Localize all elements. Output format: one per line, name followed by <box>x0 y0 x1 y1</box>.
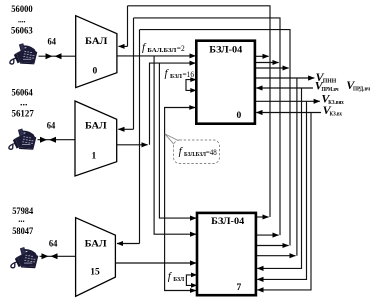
svg-text:...: ... <box>18 215 25 225</box>
label V PRD.vch <box>346 78 370 93</box>
svg-text:...: ... <box>20 99 28 109</box>
BZL7 loop f <box>186 275 196 286</box>
concentrator BAL 0 <box>76 16 117 88</box>
V PRM input line <box>256 87 313 89</box>
svg-text:56127: 56127 <box>12 109 35 119</box>
concentrator BAL 15 <box>76 218 116 297</box>
V PNN output line <box>255 77 314 79</box>
svg-text:64: 64 <box>47 122 56 132</box>
BZL0 right out 2 <box>255 62 279 64</box>
svg-text:БЗЛ: БЗЛ <box>170 73 182 80</box>
BZL7 out 2 <box>256 234 279 236</box>
label V PRM.vch <box>315 79 339 94</box>
telephone set 1 <box>10 43 37 64</box>
svg-text:ПРД.вч: ПРД.вч <box>353 86 370 93</box>
svg-text:7: 7 <box>237 283 242 293</box>
telephone set 2 <box>9 129 36 150</box>
svg-text:=2: =2 <box>177 43 185 53</box>
svg-text:БЗЛ-04: БЗЛ-04 <box>211 217 244 227</box>
svg-text:56063: 56063 <box>11 27 33 37</box>
svg-text:f: f <box>142 42 147 54</box>
svg-text:БЗЛ-04: БЗЛ-04 <box>209 45 242 55</box>
wire BAL1 output junction <box>117 144 148 146</box>
svg-text:БАЛ: БАЛ <box>85 121 107 131</box>
svg-text:=16: =16 <box>183 69 195 79</box>
feedback net 2: bus to BAL1 <box>134 18 281 235</box>
wire BAL15 output to BZL7 input 3 <box>115 262 196 264</box>
V PNN tee down to BZL7 out4 joins <box>296 78 298 256</box>
svg-text:ПНН: ПНН <box>323 78 337 85</box>
feedback net 3: bus to BAL15 <box>140 30 291 246</box>
V KZ in line <box>256 112 321 114</box>
svg-text:1: 1 <box>92 151 97 161</box>
inter-BZL link wire <box>165 108 197 291</box>
subscriber line 2 (bidirectional) <box>38 137 76 143</box>
label V KZ.vh <box>323 103 343 117</box>
callout bubble f BZL-BZL = 48 <box>165 134 220 164</box>
svg-text:БАЛ: БАЛ <box>85 240 107 250</box>
concentrator BAL 1 <box>75 101 117 176</box>
svg-text:КЗ.вих: КЗ.вих <box>328 99 344 106</box>
BZL0 right out 1 <box>255 55 269 57</box>
V KZ in tee down to BZL7 in3 <box>257 113 311 290</box>
feedback net 1: BZL outputs bus to BAL0 <box>128 6 271 217</box>
V KZ out tee down to BZL7 in2 <box>257 101 306 279</box>
svg-text:64: 64 <box>48 38 57 48</box>
svg-text:БЗЛ.БЗЛ: БЗЛ.БЗЛ <box>184 151 206 158</box>
subscriber line 3 (bidirectional) <box>40 253 76 259</box>
svg-text:15: 15 <box>90 268 100 278</box>
label V KZ.vyh <box>321 91 344 105</box>
BZL7 out 3 <box>256 245 289 247</box>
switch block BZL-04 #0 <box>196 41 255 124</box>
svg-text:=48: =48 <box>206 147 217 157</box>
svg-text:БАЛ: БАЛ <box>85 37 107 47</box>
label f BAL-BZL = 2 <box>142 42 185 55</box>
wire BAL1 riser to BZL0 input 2 <box>150 63 196 145</box>
wire tee to BZL7 input 2 <box>154 56 196 234</box>
svg-text:56064: 56064 <box>12 89 34 99</box>
BZL7 out 1 <box>256 216 269 218</box>
label V PNN <box>316 70 337 84</box>
svg-text:КЗ.вх: КЗ.вх <box>330 110 343 117</box>
svg-text:БАЛ.БЗЛ: БАЛ.БЗЛ <box>147 47 176 54</box>
subscriber numbers group 1 <box>11 5 58 249</box>
svg-text:58047: 58047 <box>12 227 33 237</box>
subscriber line 1 (bidirectional) <box>39 53 76 59</box>
svg-text:56000: 56000 <box>11 5 33 15</box>
telephone set 3 <box>11 247 38 268</box>
V PRM tee down to BZL7 in1 <box>257 88 301 268</box>
switch block BZL-04 #7 <box>197 213 256 295</box>
V KZ out line <box>255 100 320 102</box>
svg-text:....: .... <box>18 16 26 26</box>
svg-text:0: 0 <box>237 111 242 121</box>
wire tee to BZL7 input 1 <box>159 63 196 218</box>
svg-text:64: 64 <box>49 239 58 249</box>
svg-text:f: f <box>165 68 170 80</box>
label f BZL (lower) <box>168 270 185 283</box>
wire BAL0 output to BZL0 input 1 <box>117 55 196 57</box>
BZL0 right out 3 <box>255 67 289 69</box>
svg-text:f: f <box>168 270 173 282</box>
label f BZL = 16 <box>165 68 195 81</box>
BZL0 loop f=16 <box>186 80 196 91</box>
svg-text:БЗЛ: БЗЛ <box>173 276 184 283</box>
svg-text:0: 0 <box>93 66 98 76</box>
